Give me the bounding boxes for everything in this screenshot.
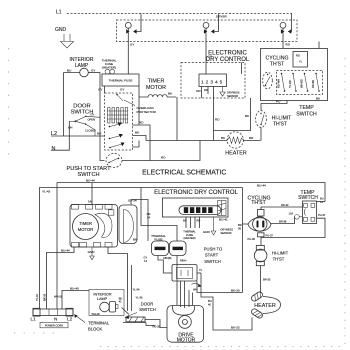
svg-text:12345: 12345 [201, 80, 224, 86]
label temp switch [296, 97, 321, 118]
electronic dry control (schematic) [181, 51, 250, 99]
wire left feed to terminal block [56, 183, 58, 310]
thermal fuse right (bottom) [170, 241, 187, 263]
svg-text:BR-35: BR-35 [263, 278, 271, 282]
svg-text:PU-36: PU-36 [248, 237, 256, 241]
svg-text:RD-WH: RD-WH [277, 79, 281, 88]
svg-text:RD: RD [161, 156, 166, 160]
svg-text:OR: OR [196, 89, 201, 93]
wire timer bottom BK-31 [108, 247, 128, 311]
wire PU to hi-limit [261, 100, 287, 104]
svg-text:SWITCH: SWITCH [139, 307, 156, 312]
svg-text:RD: RD [197, 219, 201, 223]
svg-text:RD-28: RD-28 [153, 324, 161, 328]
svg-text:WH-28: WH-28 [54, 295, 63, 299]
svg-text:SWITCH: SWITCH [204, 259, 221, 264]
terminal block label [74, 314, 110, 331]
wire left lamp drop [63, 73, 65, 137]
svg-text:GND: GND [55, 27, 67, 33]
wire GY lamp2 to dry control [205, 42, 207, 75]
drum lamp 3 [280, 14, 291, 49]
svg-text:RD: RD [296, 54, 300, 58]
svg-text:MOTOR: MOTOR [146, 85, 166, 91]
wire timer motor right drop [176, 97, 178, 141]
svg-text:HEATER: HEATER [225, 151, 247, 157]
wire from bus to fuse right [141, 188, 177, 242]
svg-text:DRY CONTROL: DRY CONTROL [206, 57, 250, 63]
wire BR-36 [238, 188, 248, 293]
timer cam contacts [107, 108, 128, 124]
svg-text:GND: GND [88, 250, 96, 254]
wire board bottom stubs [186, 217, 200, 229]
svg-text:GY: GY [120, 88, 124, 92]
thermal fuse box [98, 74, 139, 92]
timer motor [139, 79, 176, 98]
svg-text:BR: BR [183, 219, 187, 223]
svg-text:MOTOR: MOTOR [78, 227, 94, 232]
cabinet outline [40, 188, 243, 310]
interior lamp [64, 57, 101, 77]
svg-text:BR: BR [249, 136, 254, 140]
selector sub-box [293, 52, 308, 68]
timer switch arm 1 [109, 123, 122, 128]
svg-text:POWER CORD: POWER CORD [45, 323, 63, 327]
wire RD push line [122, 141, 200, 161]
svg-text:YL-RD: YL-RD [288, 80, 292, 88]
heater (bottom) [250, 291, 280, 319]
svg-text:GY: GY [98, 88, 102, 92]
svg-text:TIMER: TIMER [79, 221, 92, 226]
svg-text:N: N [54, 316, 57, 321]
wire L1 bus [67, 13, 292, 15]
wire N [51, 121, 69, 150]
timer knob cam [119, 205, 137, 244]
timer wire labels [61, 199, 138, 253]
wire fuse box right drop [138, 86, 140, 125]
wire RD-42 cycling to temp switch [261, 203, 303, 210]
svg-text:TH'ST: TH'ST [251, 200, 266, 206]
wire BK-33 [201, 273, 252, 330]
svg-text:BU-44: BU-44 [86, 179, 95, 183]
push to start switch (bottom) [165, 247, 223, 292]
cycling thermostat box [261, 49, 328, 101]
svg-text:RD-42: RD-42 [281, 203, 289, 207]
svg-text:HEATER: HEATER [254, 303, 276, 309]
wire BK exit to heater line [133, 131, 147, 141]
thermal fuse left (bottom) [152, 241, 172, 260]
svg-text:GY: GY [144, 256, 148, 260]
svg-text:BU-41: BU-41 [219, 218, 228, 222]
svg-text:BU: BU [97, 132, 101, 136]
svg-text:RD: RD [286, 43, 291, 47]
board ground + dryness sensor [203, 217, 233, 236]
wire feed to lamp 1 [137, 14, 142, 32]
svg-text:LBK(B): LBK(B) [163, 256, 171, 260]
temp switch contacts (dashed) [277, 71, 323, 95]
svg-text:N: N [52, 146, 56, 152]
wire RD third exit [133, 141, 140, 148]
svg-text:BR-38: BR-38 [279, 220, 287, 224]
svg-text:BK-05: BK-05 [43, 293, 47, 301]
temp switch (bottom) [295, 190, 324, 224]
door switch label [71, 104, 94, 116]
svg-text:PUSH TO: PUSH TO [204, 247, 223, 252]
svg-text:L1: L1 [56, 10, 62, 16]
svg-text:OR: OR [147, 212, 151, 216]
svg-text:YL: YL [199, 268, 203, 272]
thermal fuse symbol [105, 69, 115, 74]
wire labels below board [183, 218, 228, 223]
svg-text:BR: BR [238, 223, 242, 227]
wire fuse box to timer block [104, 86, 106, 93]
svg-text:BK-33: BK-33 [231, 326, 240, 330]
svg-text:ELECTRICAL SCHEMATIC: ELECTRICAL SCHEMATIC [142, 170, 226, 177]
svg-text:(HEATER): (HEATER) [183, 236, 195, 240]
wire BU-44 top bus [57, 179, 325, 202]
svg-text:DRYER: DRYER [216, 15, 228, 19]
timer switch arm 3 [109, 143, 124, 149]
svg-text:CYCLING: CYCLING [265, 55, 288, 61]
svg-text:SENSOR: SENSOR [227, 94, 238, 98]
svg-text:SWITCH: SWITCH [298, 195, 318, 201]
control board [162, 198, 228, 217]
wire BR-35 [261, 266, 271, 293]
svg-text:BLOCK: BLOCK [88, 327, 102, 332]
wires feeds into drive motor [177, 256, 193, 309]
svg-text:SWITCH: SWITCH [296, 112, 317, 118]
overload protector label [124, 100, 157, 114]
svg-text:RD-BK: RD-BK [311, 80, 315, 88]
svg-text:WH-28: WH-28 [92, 312, 101, 316]
svg-text:THERMAL FUSE: THERMAL FUSE [109, 79, 133, 83]
svg-text:BU-44: BU-44 [257, 184, 266, 188]
svg-text:TH'ST: TH'ST [273, 122, 287, 128]
power cord [40, 322, 68, 328]
svg-text:START: START [205, 253, 219, 258]
wire right lamp drop [99, 73, 101, 137]
heater (schematic) [225, 132, 247, 157]
svg-text:LAMP: LAMP [75, 63, 89, 69]
wire L2 [51, 132, 105, 137]
svg-text:PU-37: PU-37 [318, 213, 326, 217]
svg-text:YL-43: YL-43 [42, 190, 51, 194]
terminal block [31, 308, 74, 321]
svg-text:YL-36: YL-36 [136, 296, 143, 300]
thermal fuse (heater) label [102, 59, 117, 70]
svg-text:TH'ST: TH'ST [273, 257, 285, 262]
push to start switch (schematic) [66, 154, 122, 179]
wire timer top to bus [91, 183, 93, 205]
svg-text:OPEN: OPEN [88, 117, 95, 121]
drum lamp 2 [203, 14, 218, 42]
svg-text:WH: WH [68, 125, 72, 129]
svg-text:BU-40: BU-40 [70, 287, 79, 291]
svg-text:RD: RD [204, 88, 208, 92]
svg-text:GND: GND [203, 230, 211, 234]
svg-text:PROTECTOR: PROTECTOR [137, 110, 157, 114]
svg-text:YL: YL [299, 60, 303, 64]
wire BK right of control [214, 98, 251, 131]
wire YL-34 WH-28 drops to door switch [132, 265, 143, 311]
svg-text:BU: BU [208, 299, 212, 303]
wire bus into temp switch [317, 201, 326, 203]
svg-text:RD: RD [215, 118, 220, 122]
door switch (bottom) [125, 302, 156, 322]
wire feed dryer box to cycling box [318, 42, 320, 49]
svg-text:PUSH TO START: PUSH TO START [66, 166, 111, 172]
svg-text:MOTOR: MOTOR [177, 338, 196, 344]
ground GND [55, 27, 74, 48]
wire OR label [147, 212, 151, 220]
wire PU-37 [261, 213, 326, 238]
svg-text:DOOR: DOOR [141, 302, 154, 307]
svg-text:TIMER: TIMER [148, 79, 165, 85]
rotated wire labels left [35, 293, 47, 301]
wire timer ground [88, 247, 96, 260]
hi-limit thermostat (schematic) [256, 104, 292, 141]
wire push switch left to fuse area [158, 256, 165, 274]
svg-text:WH-RD: WH-RD [300, 79, 304, 88]
svg-text:PU-37: PU-37 [266, 234, 274, 238]
hi-limit thermostat (bottom) [254, 245, 288, 265]
cycling thermostat (bottom) [247, 195, 271, 237]
cycling thermostat [263, 72, 273, 89]
wire BR-38 cycling to temp switch [271, 217, 294, 224]
timer switch arm 2 [109, 134, 123, 139]
timer contact block (dashed) [105, 93, 133, 150]
svg-text:BU-44: BU-44 [61, 249, 70, 253]
svg-text:SENSOR: SENSOR [221, 231, 232, 235]
svg-text:YL-40: YL-40 [35, 294, 39, 301]
svg-text:PU: PU [276, 100, 280, 104]
wire GY-24 timer to fuse [131, 200, 148, 242]
thermal fuse label (bottom) [151, 234, 166, 242]
timer (bottom) [70, 205, 118, 248]
svg-text:HI-LIMIT: HI-LIMIT [272, 251, 289, 256]
svg-text:GY: GY [130, 43, 134, 47]
thermal fuse heater label (bottom) [183, 230, 196, 241]
svg-text:TERMINAL: TERMINAL [88, 321, 110, 326]
wire from display left [196, 87, 208, 99]
heater line [146, 136, 261, 141]
drum lamp 1 [125, 22, 136, 41]
svg-text:(HEATER): (HEATER) [102, 66, 116, 70]
svg-text:GY: GY [91, 112, 95, 116]
wire BK-30 [197, 281, 243, 293]
wire timer bottom left BU-44 [47, 247, 75, 309]
svg-text:GY: GY [91, 69, 95, 73]
wire RD display to heater line [214, 87, 221, 141]
svg-text:RB-H: RB-H [180, 259, 186, 263]
svg-text:L2: L2 [67, 316, 73, 321]
svg-text:LAMP: LAMP [97, 297, 108, 301]
wire PU-36 [248, 237, 262, 246]
svg-text:BU: BU [67, 69, 71, 73]
svg-text:RD: RD [139, 121, 144, 125]
dryness sensor ground [220, 87, 240, 98]
svg-text:CLOSED: CLOSED [85, 128, 96, 132]
svg-text:YL-34: YL-34 [133, 288, 140, 292]
svg-text:SWITCH: SWITCH [77, 172, 99, 178]
wire GY lamp1 to thermal fuse [127, 42, 129, 75]
wires door switch to drive motor [123, 320, 167, 329]
svg-text:L1: L1 [31, 317, 37, 322]
drive motor [167, 306, 204, 344]
dryer cabinet enclosure (dashed) [117, 20, 298, 42]
svg-text:ELECTRONIC: ELECTRONIC [208, 51, 247, 57]
interior lamp (bottom) [62, 287, 129, 317]
wire RD exit to push line [133, 121, 151, 161]
svg-text:TEMP: TEMP [299, 105, 314, 111]
wire fuse left bottom [144, 256, 148, 264]
door switch contacts [68, 112, 100, 136]
svg-text:BK-30: BK-30 [231, 288, 240, 292]
svg-text:12A: 12A [289, 212, 294, 216]
svg-text:TH'ST: TH'ST [270, 62, 285, 68]
svg-text:ELECTRONIC DRY CONTROL: ELECTRONIC DRY CONTROL [154, 190, 238, 196]
